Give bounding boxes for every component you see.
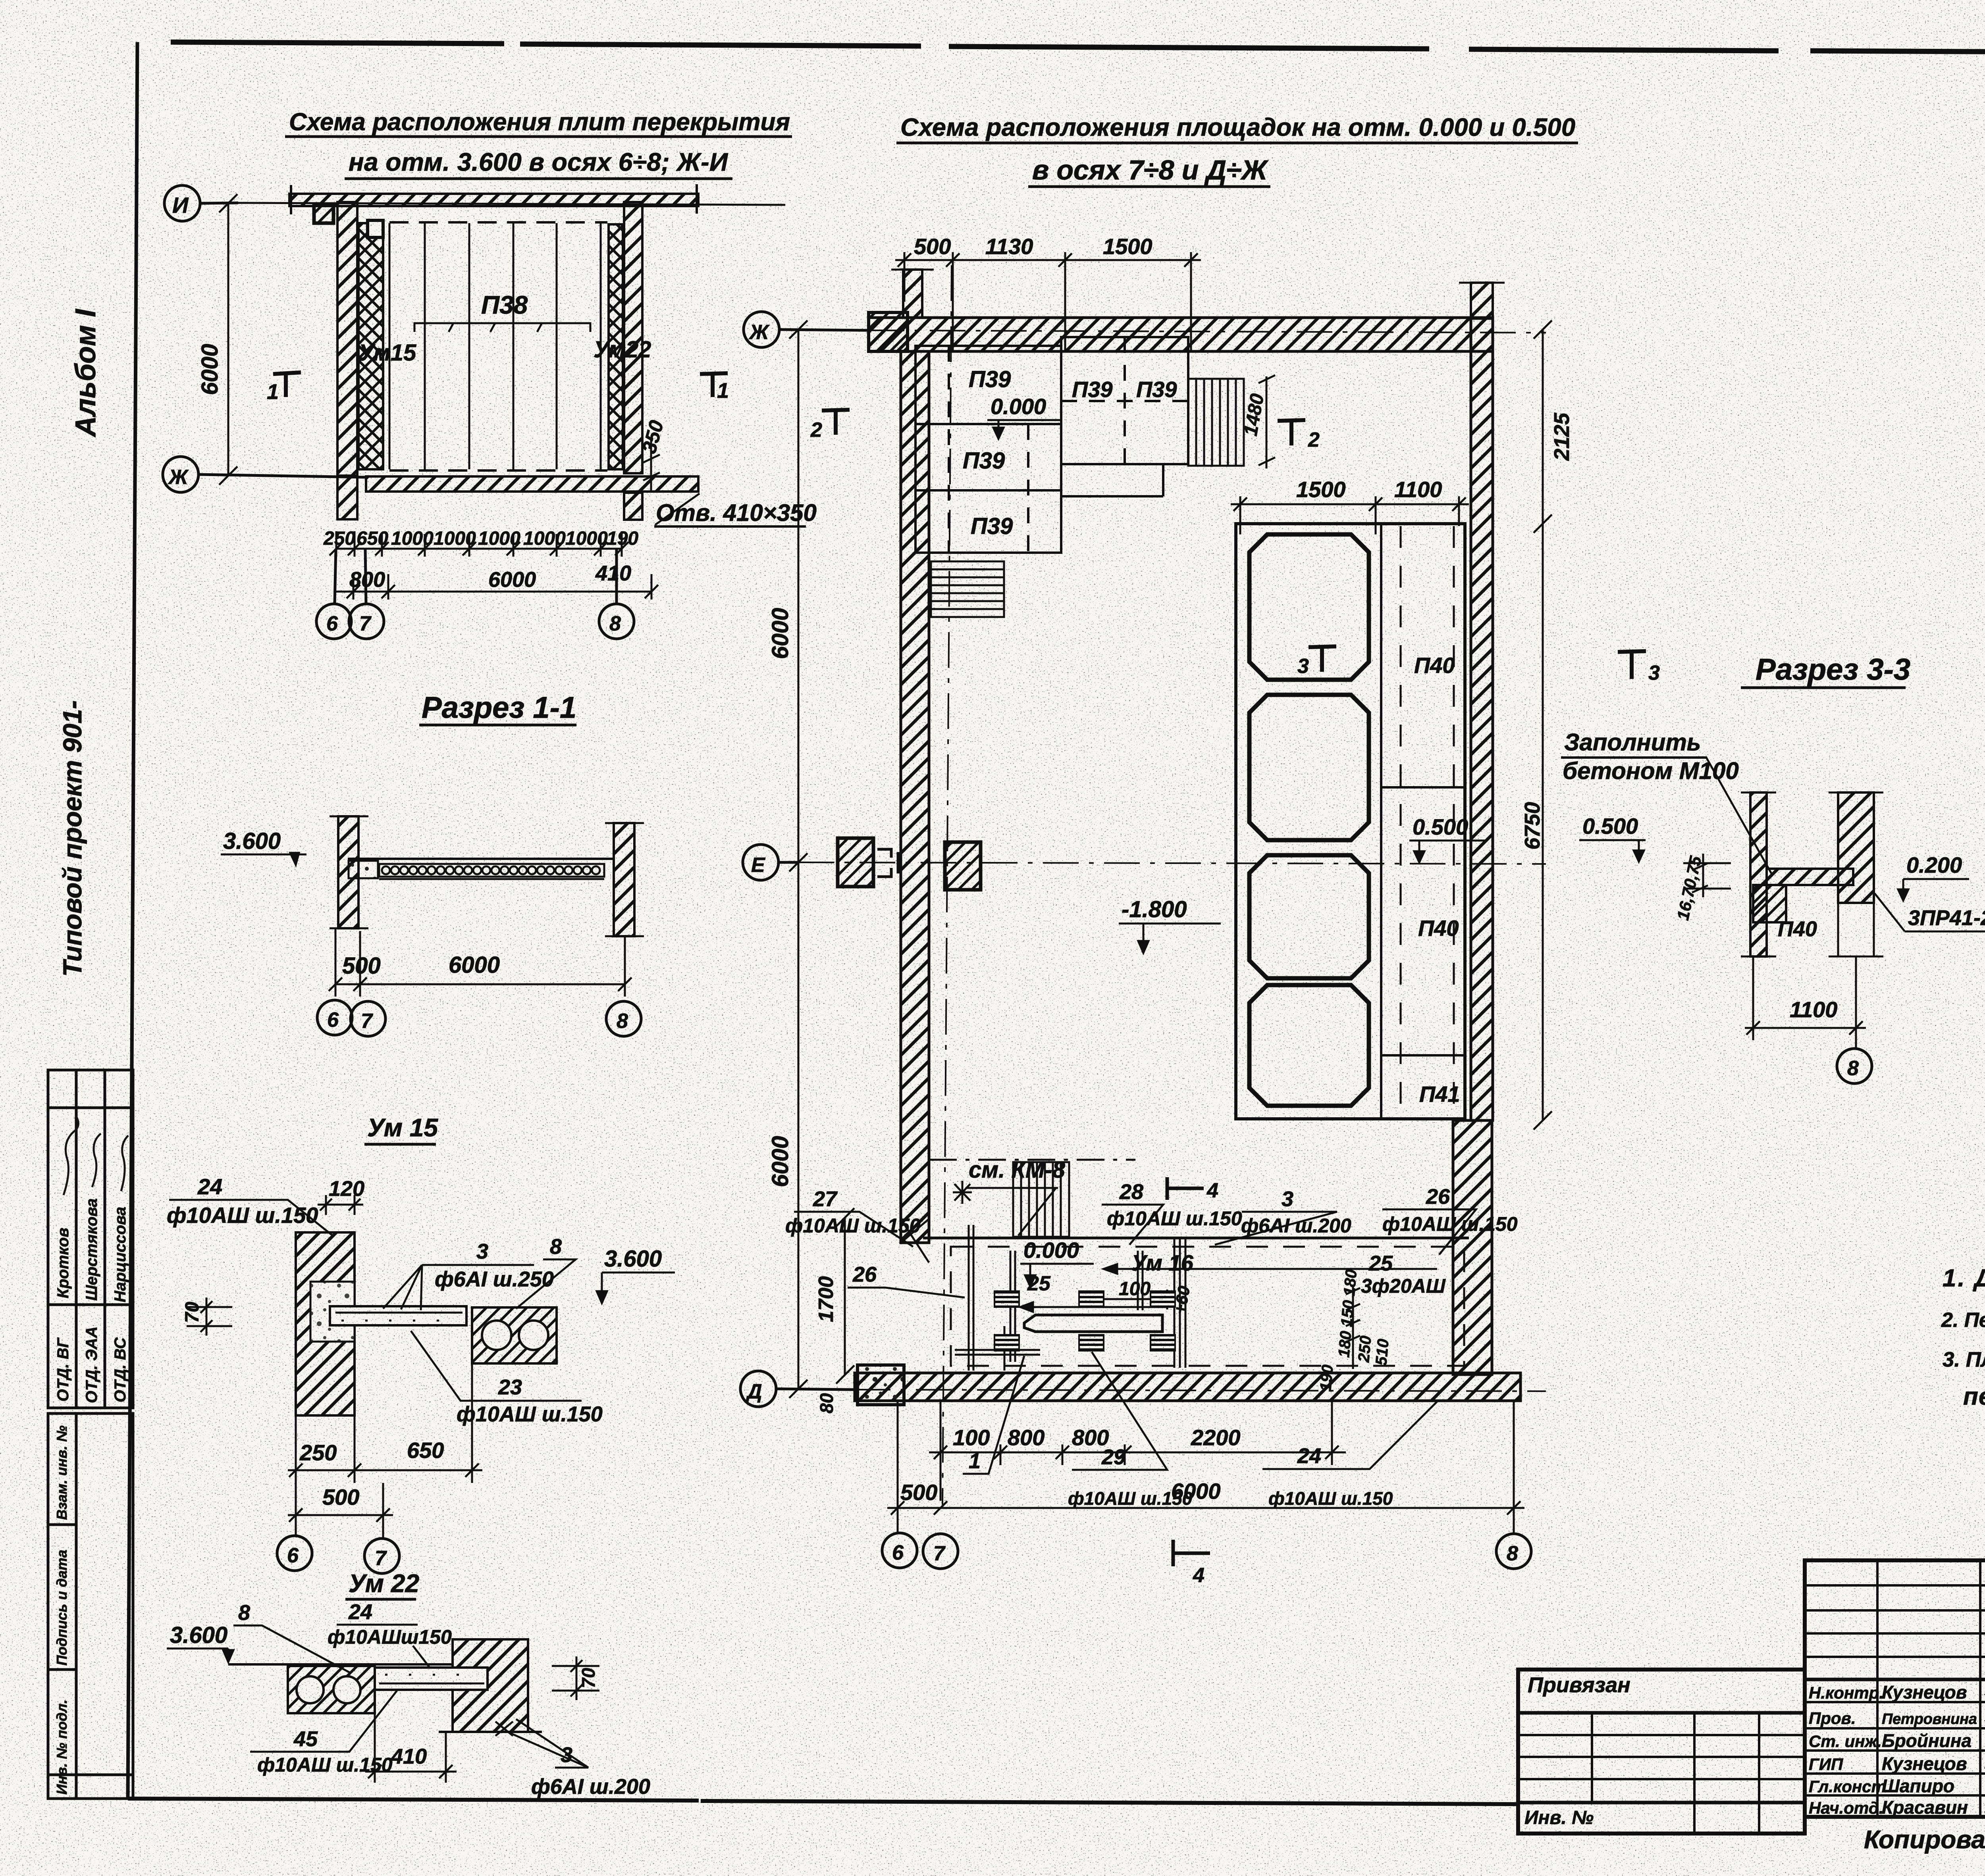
grating stairs KM-8 — [1013, 1162, 1069, 1237]
slab top line — [228, 1663, 453, 1666]
bottom dim row2 — [887, 1402, 1524, 1533]
axis circle 6 — [277, 1536, 312, 1571]
wall top band — [869, 318, 1493, 351]
axis circle 8 — [1496, 1534, 1531, 1569]
left stamp lower table — [48, 1413, 133, 1799]
section mark 4 bottom — [1173, 1540, 1210, 1566]
P39 upper-left group — [915, 346, 1061, 553]
axis circle 7 — [349, 549, 384, 639]
P38 callout line — [414, 323, 590, 332]
dim 70 right — [552, 1656, 599, 1700]
column E outer — [838, 838, 873, 887]
section mark 2T — [822, 410, 850, 435]
top dim row — [895, 252, 1201, 351]
axis Zh dashline — [869, 330, 1546, 333]
section mark 4 top — [1167, 1177, 1204, 1200]
corner block D6 — [858, 1365, 904, 1405]
axis line top — [238, 203, 785, 205]
section mark T3 right — [1618, 651, 1646, 679]
P40 opening 1 — [1249, 534, 1369, 680]
wall right lower — [1453, 1120, 1492, 1375]
dim 1480 — [1258, 375, 1275, 469]
border bottom — [128, 1799, 1518, 1804]
concrete anchor zone — [310, 1282, 355, 1342]
axis circle 6 — [316, 549, 351, 639]
dim 6000 vertical — [219, 194, 237, 485]
axis circle 8 — [599, 549, 634, 639]
axis circle 7 — [364, 1539, 399, 1573]
left stamp lower labels rotated — [54, 1425, 70, 1795]
band rebar — [379, 1675, 484, 1683]
dim 1700 — [836, 1208, 854, 1384]
wall right stub above — [1459, 283, 1505, 318]
wall left — [337, 202, 357, 476]
rebar verticals — [969, 1225, 1143, 1371]
axis circle I — [164, 185, 238, 221]
um22 strip — [609, 224, 623, 469]
name labels — [1882, 1682, 1977, 1818]
axis Zh circle — [744, 312, 869, 347]
plate P38 field — [389, 222, 607, 470]
dim row2 — [336, 574, 658, 600]
um15 strip — [358, 223, 383, 469]
axis circle 8 — [1837, 1049, 1872, 1084]
slab rebar — [335, 1313, 463, 1321]
right outer dim line — [1534, 320, 1552, 1130]
slab between — [1767, 869, 1853, 885]
axis circle 7 — [923, 1534, 958, 1569]
dashdot floor line — [929, 1159, 1135, 1161]
left stamp names rotated — [54, 1198, 129, 1403]
left stamp signatures — [64, 1116, 128, 1195]
axis 7 dashline vertical — [942, 265, 952, 1505]
axis circle 8 — [606, 1001, 641, 1036]
mesh plates row2 — [994, 1335, 1175, 1351]
section mark T1 right — [700, 373, 728, 397]
left thin wall — [1750, 792, 1767, 956]
wall top end ticks — [291, 184, 697, 214]
left stamp upper table — [48, 1070, 133, 1408]
hollow slab left — [288, 1666, 375, 1713]
anchor cross mark — [495, 1722, 513, 1736]
arrow line over beam — [1020, 1302, 1167, 1312]
wall left corner foot — [901, 1219, 929, 1263]
column block corner — [314, 204, 333, 223]
corner piece — [1753, 885, 1786, 922]
slab top line — [348, 858, 614, 860]
adjacent hollow slab — [472, 1307, 557, 1363]
wall left stub above — [891, 270, 934, 318]
wall right — [1471, 318, 1493, 1120]
rebar cross lower-left — [955, 1326, 1040, 1371]
dim row1 texts — [323, 528, 638, 549]
wall — [453, 1639, 528, 1732]
wall right — [624, 202, 642, 473]
column E brackets — [877, 849, 898, 877]
P40 opening 3 — [1249, 855, 1369, 978]
row labels — [1809, 1683, 1886, 1817]
wall bottom band — [855, 1373, 1521, 1401]
wall right lower stub — [624, 493, 642, 520]
section mark 3T — [1309, 646, 1336, 672]
stairs upper — [1188, 379, 1244, 466]
Um16 edge lines — [1174, 1239, 1185, 1368]
dim 1100 — [1745, 956, 1866, 1047]
axis E dashline — [798, 862, 1546, 864]
axis circle 7 — [351, 1001, 385, 1036]
hollow core slab — [379, 864, 604, 879]
section mark 1T left — [273, 372, 301, 397]
dim 1500-1100 — [1231, 496, 1469, 534]
wall — [296, 1232, 355, 1415]
beam bar — [1024, 1315, 1162, 1332]
slab anchor block — [349, 861, 378, 878]
wall left — [338, 816, 358, 928]
border top — [171, 42, 1985, 55]
dim 350 small — [643, 437, 660, 490]
P40 panel outline — [1236, 524, 1465, 1119]
privyazan table — [1518, 1670, 1805, 1834]
um15 top block — [368, 220, 383, 237]
dim row1 — [330, 531, 628, 557]
bottom dim row1 — [929, 1401, 1346, 1501]
um15 dims — [288, 1326, 482, 1483]
axis circle 6 — [882, 1533, 917, 1568]
slab band — [330, 1306, 466, 1325]
column E inner — [945, 842, 981, 890]
stairs lower-left — [931, 561, 1004, 617]
small dims 16 70 75 — [1683, 854, 1731, 897]
wall bottom — [366, 476, 698, 492]
star mark — [953, 1181, 972, 1204]
wall left lower stub — [337, 476, 357, 519]
axis D dashline — [855, 1390, 1546, 1391]
wall left — [901, 351, 929, 1243]
floor edge line — [923, 1237, 1469, 1240]
axis circle Zh — [163, 457, 366, 492]
P40 opening 4 — [1249, 985, 1369, 1106]
vertical axis dim line — [789, 320, 807, 1398]
right platform dims rotated — [1346, 1286, 1360, 1369]
mesh plates row1 — [994, 1291, 1175, 1307]
axis E circle — [743, 844, 798, 880]
section mark T2 — [1278, 420, 1305, 445]
monolithic band — [375, 1668, 488, 1690]
right wall — [1838, 792, 1874, 903]
border left — [128, 42, 137, 1799]
signature table grid — [1805, 1560, 1985, 1817]
wall right — [614, 823, 634, 936]
dim 70 — [187, 1298, 232, 1336]
platform dashed outline — [951, 1247, 1464, 1366]
sec11 dims — [329, 928, 632, 997]
wall top — [289, 194, 698, 206]
P39 middle group — [1061, 337, 1188, 496]
corner column Zh — [869, 312, 908, 351]
axis circle 6 — [317, 1000, 352, 1035]
P40 opening 2 — [1249, 695, 1369, 840]
axis D circle — [740, 1371, 855, 1407]
